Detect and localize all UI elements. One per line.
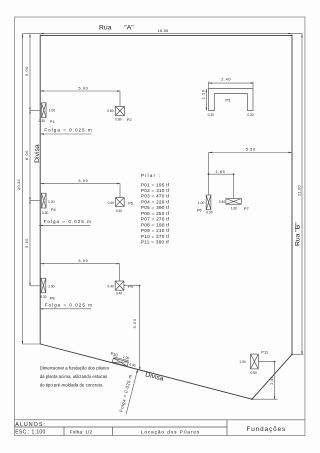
pillar P1 bbox=[39, 103, 56, 124]
svg-text:Folga = 0.025 m: Folga = 0.025 m bbox=[44, 128, 92, 133]
svg-text:0.40: 0.40 bbox=[107, 284, 114, 288]
svg-text:0.80: 0.80 bbox=[115, 117, 122, 121]
dimension 20.34 left bbox=[16, 34, 40, 344]
svg-text:2.40: 2.40 bbox=[221, 76, 231, 81]
svg-text:0.30: 0.30 bbox=[208, 113, 215, 117]
dimension 5.50 P6-RuaB bbox=[208, 146, 292, 195]
svg-text:1.00: 1.00 bbox=[48, 200, 55, 204]
svg-text:P05 = 390 tf: P05 = 390 tf bbox=[141, 205, 170, 210]
svg-text:P3: P3 bbox=[225, 97, 231, 102]
svg-text:5.50: 5.50 bbox=[24, 238, 29, 248]
dimension 16.50 top bbox=[23, 28, 303, 35]
svg-text:P07 = 270 tf: P07 = 270 tf bbox=[141, 217, 170, 222]
svg-text:0.40: 0.40 bbox=[108, 201, 115, 205]
svg-text:1.00: 1.00 bbox=[239, 360, 246, 364]
svg-text:5.00: 5.00 bbox=[24, 66, 29, 76]
dimension 1.50 P3 bbox=[201, 89, 207, 111]
svg-text:0.40: 0.40 bbox=[116, 291, 123, 295]
leader Folga P4 bbox=[39, 219, 92, 226]
svg-text:P06 = 250 tf: P06 = 250 tf bbox=[141, 211, 170, 216]
svg-text:5.50: 5.50 bbox=[246, 146, 256, 151]
leader Folga P1 bbox=[40, 128, 93, 135]
svg-text:5.00: 5.00 bbox=[132, 318, 137, 328]
svg-text:"A": "A" bbox=[124, 25, 134, 32]
svg-text:0.30: 0.30 bbox=[40, 295, 47, 299]
svg-text:0.40: 0.40 bbox=[219, 200, 226, 204]
svg-text:1.00: 1.00 bbox=[49, 108, 56, 112]
svg-text:1.00: 1.00 bbox=[231, 206, 238, 210]
dimension 1.65 P6-P7 bbox=[208, 169, 235, 198]
svg-text:P10 = 270 tf: P10 = 270 tf bbox=[141, 234, 170, 239]
pillar P7 bbox=[219, 199, 250, 212]
svg-text:P6: P6 bbox=[197, 208, 203, 213]
property line diagonal to Rua B bbox=[251, 354, 293, 400]
svg-text:Locação dos Pilares: Locação dos Pilares bbox=[141, 429, 200, 435]
svg-text:5.00: 5.00 bbox=[78, 258, 88, 263]
svg-text:P09 = 210 tf: P09 = 210 tf bbox=[141, 228, 170, 233]
svg-text:Dimensionar a fundação dos pil: Dimensionar a fundação dos pilares bbox=[40, 366, 110, 371]
pillar load table bbox=[141, 173, 170, 245]
dimension 2.45 P11-corner bbox=[252, 361, 278, 399]
dimension 2.40 P3 bbox=[208, 76, 254, 88]
svg-text:P1: P1 bbox=[50, 119, 56, 124]
svg-text:0.30: 0.30 bbox=[247, 113, 254, 117]
svg-text:P11 = 380 tf: P11 = 380 tf bbox=[141, 240, 170, 245]
pillar P10 bbox=[109, 351, 138, 368]
svg-text:1.65: 1.65 bbox=[215, 169, 225, 174]
svg-text:Pilar :: Pilar : bbox=[141, 173, 161, 178]
property line Divisa left bbox=[34, 35, 41, 345]
svg-text:0.90: 0.90 bbox=[251, 371, 258, 375]
svg-text:P11: P11 bbox=[261, 349, 269, 354]
street line Rua B bbox=[292, 35, 302, 355]
svg-text:Folga = 0.025 m: Folga = 0.025 m bbox=[44, 219, 92, 224]
pillar P3 U-shape bbox=[208, 89, 254, 117]
svg-text:P01 = 195 tf: P01 = 195 tf bbox=[141, 182, 170, 187]
svg-text:5.00: 5.00 bbox=[78, 178, 88, 183]
svg-text:Rua: Rua bbox=[99, 25, 112, 32]
leader Folga P8 bbox=[40, 302, 94, 309]
svg-text:0.40: 0.40 bbox=[116, 209, 123, 213]
svg-text:1.00: 1.00 bbox=[48, 285, 55, 289]
svg-text:P4: P4 bbox=[51, 207, 57, 212]
svg-text:P8: P8 bbox=[50, 296, 56, 301]
svg-text:1.00: 1.00 bbox=[198, 201, 205, 205]
note text bbox=[40, 366, 110, 388]
svg-text:Folga = 0.025 m: Folga = 0.025 m bbox=[45, 302, 93, 307]
svg-text:16.50: 16.50 bbox=[158, 28, 169, 33]
dimension 5.00 P4-P5 bbox=[40, 178, 120, 197]
svg-text:P02 = 310 tf: P02 = 310 tf bbox=[141, 188, 170, 193]
svg-text:0.30: 0.30 bbox=[206, 210, 213, 214]
dimension 5.00 P8-P9 bbox=[40, 258, 120, 281]
pillar P2 bbox=[107, 106, 132, 122]
svg-text:P9: P9 bbox=[128, 284, 134, 289]
dimension 5.00 P9-P10 vertical bbox=[124, 285, 141, 370]
svg-text:5.00: 5.00 bbox=[78, 86, 88, 91]
svg-text:0.30: 0.30 bbox=[39, 119, 46, 123]
leader Folga P10 bbox=[119, 370, 138, 414]
svg-text:ALUNOS:: ALUNOS: bbox=[15, 422, 46, 428]
svg-text:P5: P5 bbox=[128, 200, 134, 205]
street line Rua A bbox=[40, 25, 292, 36]
property line Divisa bottom diagonal bbox=[40, 344, 252, 399]
title block bbox=[15, 420, 305, 436]
pillar P8 bbox=[40, 278, 55, 300]
dimension chain 5.00 / 6.00 / 5.50 left bbox=[24, 34, 40, 286]
svg-text:21.00: 21.00 bbox=[296, 185, 301, 196]
svg-text:P08 = 190 tf: P08 = 190 tf bbox=[141, 222, 170, 227]
svg-text:P7: P7 bbox=[244, 206, 250, 211]
svg-text:20.34: 20.34 bbox=[16, 179, 21, 190]
svg-text:do tipo pré-moldada de concret: do tipo pré-moldada de concreto. bbox=[40, 382, 104, 387]
svg-text:da planta acima, utilizando es: da planta acima, utilizando estacas bbox=[40, 374, 108, 379]
svg-text:0.80: 0.80 bbox=[107, 109, 114, 113]
svg-text:P04 = 220 tf: P04 = 220 tf bbox=[141, 200, 170, 205]
svg-text:2.45: 2.45 bbox=[270, 376, 274, 384]
svg-text:Divisa: Divisa bbox=[34, 144, 41, 163]
svg-text:P2: P2 bbox=[127, 117, 133, 122]
dimension 5.00 P1-P2 bbox=[40, 86, 120, 107]
svg-text:Fundações: Fundações bbox=[246, 426, 286, 433]
svg-text:Rua "B": Rua "B" bbox=[295, 222, 302, 246]
pillar P4 bbox=[42, 193, 57, 215]
dimension 21.00 right bbox=[292, 34, 304, 355]
pillar P11 bbox=[239, 349, 269, 374]
svg-text:0.30: 0.30 bbox=[42, 211, 49, 215]
svg-text:Folha: 1/2: Folha: 1/2 bbox=[70, 429, 93, 434]
pillar P6 bbox=[197, 195, 213, 214]
svg-text:1.50: 1.50 bbox=[201, 89, 206, 99]
pillar P9 bbox=[107, 281, 133, 295]
svg-text:6.00: 6.00 bbox=[24, 150, 29, 160]
svg-text:ESC.: 1:100: ESC.: 1:100 bbox=[15, 429, 45, 435]
pillar P5 bbox=[108, 198, 134, 213]
svg-text:P03 = 470 tf: P03 = 470 tf bbox=[141, 194, 170, 199]
